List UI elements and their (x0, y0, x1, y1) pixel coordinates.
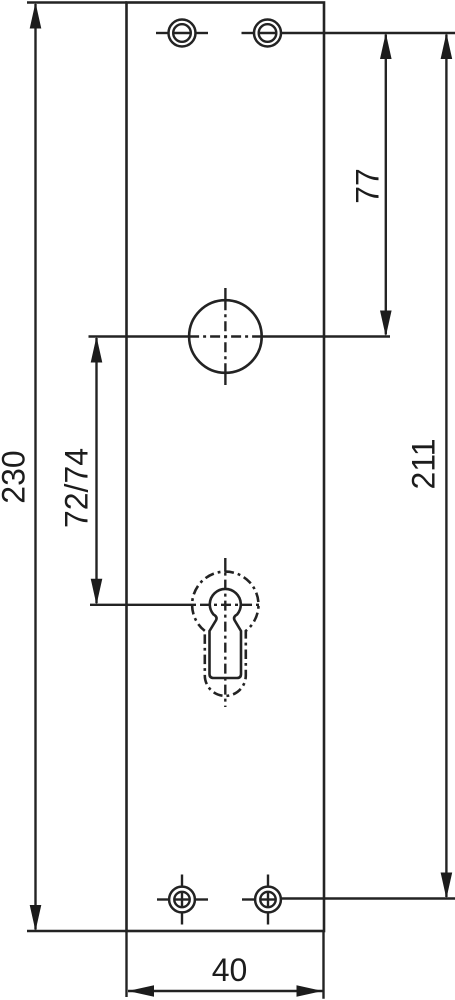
extension line top-left (230 top) (27, 1, 127, 3)
screw hole bottom-right: phillips cross (260, 898, 275, 900)
screw hole bottom-right: outer circle (255, 887, 281, 913)
svg-text:211: 211 (406, 438, 442, 489)
screw hole top-left: inner circle (173, 24, 191, 42)
svg-text:72/74: 72/74 (59, 448, 95, 528)
arrow 40 left (128, 985, 154, 997)
keyhole solid cylinder cutout (circle + neck + stem) (210, 589, 242, 678)
arrow 230 top (30, 3, 42, 29)
extension line left at handle center (72/74 top reference) (89, 335, 190, 337)
plate outline (127, 3, 325, 932)
screw hole bottom-right: vertical ticks (267, 875, 269, 887)
extension line left at keyhole center (72/74 bottom reference) (90, 604, 195, 606)
screw hole bottom-left: inner circle (174, 892, 189, 907)
extension line right of bottom-right screw (211 bottom reference) (281, 897, 455, 899)
svg-text:77: 77 (350, 168, 386, 204)
keyhole vertical centerline tick above (224, 558, 226, 572)
arrow 211 top (441, 33, 453, 59)
screw hole bottom-left: phillips cross (174, 898, 189, 900)
arrow 211 bottom (441, 873, 453, 899)
handle hole circle (189, 300, 262, 373)
handle hole vertical centerline dash-dot (224, 300, 226, 373)
dimension line 40 (128, 990, 323, 992)
screw hole top-right: outer circle (254, 20, 281, 47)
svg-text:230: 230 (0, 450, 32, 503)
screw hole bottom-right: left tick (242, 898, 255, 900)
handle hole vertical centerline tick below (224, 373, 226, 385)
keyhole dashed profile outline (circle + stem) (192, 572, 258, 696)
handle hole horizontal centerline dash-dot (189, 335, 262, 337)
screw hole bottom-right: inner circle (260, 892, 275, 907)
svg-text:40: 40 (212, 952, 248, 988)
arrow 77 bottom (380, 311, 392, 337)
dimension line 72/74 (95, 338, 97, 603)
dimension line 77 (385, 35, 387, 335)
screw hole top-left: outer circle (169, 20, 196, 47)
screw hole top-right: slot (259, 32, 275, 34)
arrow 72/74 bottom (91, 579, 103, 605)
extension line right at handle center (77 bottom reference) (262, 335, 390, 337)
screw hole top-left: slot (174, 32, 190, 34)
arrow 40 right (297, 985, 323, 997)
extension line right of top-right screw (77/211 top reference) (281, 32, 455, 34)
screw hole top-left: crosshair ticks (156, 32, 169, 34)
extension line 40 left (plate left edge extended) (125, 931, 127, 997)
screw hole top-right: left tick (242, 32, 255, 34)
screw hole bottom-left: crosshair ticks (157, 898, 169, 900)
dimension line 211 (445, 35, 447, 898)
arrow 72/74 top (91, 337, 103, 363)
keyhole vertical centerline dash-dot (224, 572, 226, 707)
arrow 230 bottom (30, 905, 42, 931)
extension line bottom-left (230 bottom) (27, 930, 127, 932)
keyhole horizontal centerline dash-dot (195, 604, 262, 606)
handle hole vertical centerline tick above (224, 288, 226, 300)
screw hole bottom-left: outer circle (169, 887, 195, 913)
screw hole top-right: inner circle (259, 24, 277, 42)
arrow 77 top (380, 33, 392, 59)
extension line 40 right (plate right edge extended) (322, 931, 324, 999)
dimension line 230 (34, 4, 36, 930)
